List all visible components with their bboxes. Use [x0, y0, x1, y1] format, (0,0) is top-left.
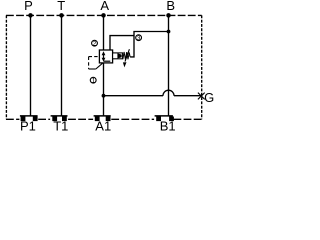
node B [166, 13, 171, 18]
enclosure dashed border bottom (interrupted by port symbols) [6, 118, 202, 120]
drain pilot dashed wire (left of valve) [89, 57, 103, 69]
svg-text:3: 3 [137, 35, 141, 42]
gauge wire A to G with hop over B [104, 90, 202, 96]
node P (junction dot on border) [28, 13, 33, 18]
enclosure dashed border right [201, 15, 203, 119]
node B branch junction dot [167, 30, 171, 34]
wire P to P1 [30, 15, 32, 116]
svg-text:A1: A1 [95, 119, 111, 134]
node A [101, 13, 106, 18]
svg-text:1: 1 [92, 78, 96, 85]
plugged port X symbol [198, 93, 205, 100]
balloon callout 1 (below valve) [90, 77, 96, 84]
svg-text:P1: P1 [20, 119, 36, 134]
wire B to B1 [168, 15, 170, 116]
svg-text:P: P [24, 0, 33, 13]
valve V1 spring seat box [113, 53, 123, 59]
wire valve outlet to A1 [103, 63, 105, 117]
pilot wire from B branch [130, 32, 168, 57]
port P1 connection symbol [20, 116, 38, 121]
valve V1 internal flow arrow (double headed) [102, 51, 111, 62]
pilot wire valve top to B pilot [110, 36, 134, 50]
svg-text:A: A [100, 0, 109, 13]
svg-text:2: 2 [93, 41, 97, 48]
wire A to valve inlet [103, 15, 105, 50]
svg-text:T1: T1 [53, 119, 68, 134]
node T [59, 13, 64, 18]
enclosure dashed border top [6, 14, 202, 16]
svg-text:G: G [204, 90, 214, 105]
port T1 connection symbol [51, 116, 68, 121]
enclosure dashed border left [5, 15, 7, 119]
balloon callout 2 (above valve) [92, 40, 98, 47]
port B1 connection symbol [155, 116, 174, 121]
valve V1 body square [99, 50, 112, 63]
valve V1 seat poppet (filled) [117, 53, 121, 58]
valve V1 spring [123, 52, 130, 60]
svg-text:B1: B1 [160, 119, 176, 134]
svg-text:B: B [166, 0, 175, 13]
port A1 connection symbol [94, 116, 111, 121]
node A gauge junction dot [102, 94, 106, 98]
svg-text:T: T [57, 0, 65, 13]
wire T to T1 [61, 15, 63, 116]
balloon callout 3 (pilot corner) [136, 35, 142, 42]
valve V1 adjustment arrow [125, 49, 129, 61]
